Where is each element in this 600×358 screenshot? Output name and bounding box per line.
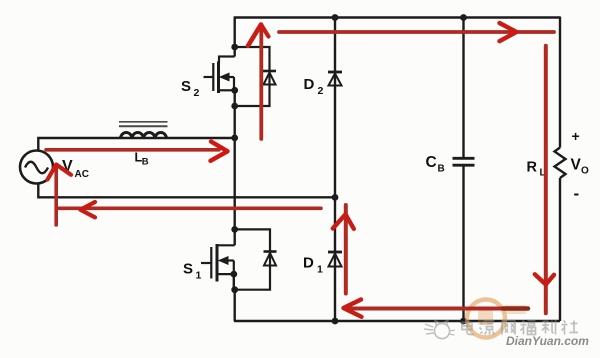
current arrow bottom line (red) [344,300,529,317]
current arrow top rail (red) [279,23,554,41]
watermark cat logo [424,321,455,339]
junction dot S2 loop bottom [231,103,238,110]
svg-text:S: S [181,78,191,95]
svg-text:2: 2 [194,87,200,99]
junction dot D-leg bottom [332,318,339,325]
diode D2 [328,72,342,86]
wire S1 source to loop bottom [233,274,235,290]
junction dot S-leg / inductor wire [231,135,238,142]
junction dot D-leg / AC return [332,194,339,201]
inductor LB [121,132,167,138]
junction dot S1 drain [231,226,238,233]
svg-text:V: V [571,157,582,174]
junction dot D-leg top [332,14,339,21]
capacitor CB [453,17,475,322]
wire S-leg bottom segment [233,290,235,321]
wire bottom rail [234,320,560,322]
junction dot S1 source stub [230,271,237,278]
svg-text:D: D [303,255,314,272]
svg-text:R: R [527,160,538,176]
current arrow down right side (red) [535,46,554,314]
网 [502,321,515,335]
current arrow up through S2 loop (red) [248,25,269,140]
inductor LB core bars [119,122,168,127]
svg-text:B: B [142,157,149,168]
福 [521,321,536,335]
current arrow up at VAC (red) [48,165,72,226]
svg-text:S: S [183,261,193,278]
svg-text:DianYuan.com: DianYuan.com [506,334,589,348]
ac source VAC [20,151,53,184]
junction dot S2 drain [231,44,238,51]
wire top rail [234,16,560,18]
wire AC top lead [38,138,234,151]
svg-text:AC: AC [75,169,89,180]
wire right leg upper (to RL) [559,17,561,148]
svg-text:B: B [438,164,445,175]
body diode of S2 (loop) [235,47,276,106]
mosfet S2 [204,56,235,94]
svg-text:C: C [426,154,437,171]
junction dot S1 loop bottom [231,286,238,293]
svg-text:1: 1 [317,264,323,276]
电 [462,320,474,335]
svg-text:+: + [572,128,580,144]
wire right leg lower [559,178,561,321]
watermark stamp ring [467,300,526,338]
源 [480,321,495,335]
svg-text:1: 1 [196,270,202,282]
利 [542,320,556,335]
svg-text:O: O [581,166,589,177]
wire S-leg top segment [233,17,235,57]
mosfet S1 [201,244,235,282]
junction dot S2 source stub [231,87,238,94]
current arrow up through D1 (red) [333,205,354,294]
current arrow return line (red) [58,202,322,217]
current arrow along LB (red) [46,142,228,161]
svg-text:-: - [574,184,580,203]
body diode of S1 (loop) [235,229,277,289]
watermark text 电源网福利社 (drawn strokes) [462,320,578,335]
junction dot CB bottom [460,318,467,325]
svg-text:2: 2 [318,85,324,97]
resistor RL [555,148,566,179]
wire S2 source to loop bottom [233,90,235,106]
wire AC return lead [38,184,335,198]
社 [562,321,579,335]
junction dot CB top [460,14,467,21]
wire D-leg [334,18,336,322]
svg-text:D: D [304,76,315,93]
wire S-leg middle segment [233,106,235,245]
diode D1 [328,252,342,267]
